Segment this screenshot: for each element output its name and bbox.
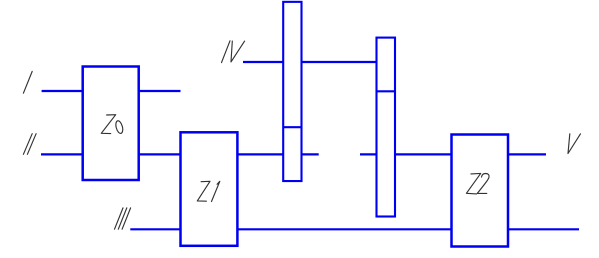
wire shaft III right of Z2 xyxy=(508,228,579,230)
stub right of tall block xyxy=(302,153,319,155)
wire shaft I left xyxy=(42,90,83,92)
divider of block 2 xyxy=(377,90,396,92)
wire shaft I right stub xyxy=(139,90,181,92)
wire shaft V out of Z2 xyxy=(508,153,546,155)
gear block Z2 xyxy=(452,135,509,247)
wire block 2 to Z2 xyxy=(395,153,452,155)
label Z2 xyxy=(466,173,489,194)
wire Z1 to tall block xyxy=(237,153,283,155)
wire shaft IV xyxy=(243,61,283,63)
gear block Z1 xyxy=(181,132,238,246)
label shaft I xyxy=(23,71,32,93)
wire shaft III xyxy=(130,228,180,230)
label shaft III xyxy=(115,208,131,229)
label Z1 xyxy=(197,181,220,201)
label shaft II xyxy=(23,134,36,155)
label shaft IV xyxy=(222,41,245,63)
divider of tall block xyxy=(283,126,301,128)
gear pair block 2 (tall) xyxy=(377,38,396,217)
label shaft V xyxy=(568,134,581,154)
wire Zo to Z1 xyxy=(139,153,181,155)
label Zo xyxy=(101,115,115,134)
wire shaft III Z1 to Z2 xyxy=(237,228,451,230)
gear pair block on shaft IV (tall) xyxy=(283,2,301,181)
wire shaft IV between blocks xyxy=(302,61,377,63)
stub left of block 2 xyxy=(360,153,377,155)
wire shaft II xyxy=(41,153,83,155)
gear block Zo xyxy=(83,67,139,181)
